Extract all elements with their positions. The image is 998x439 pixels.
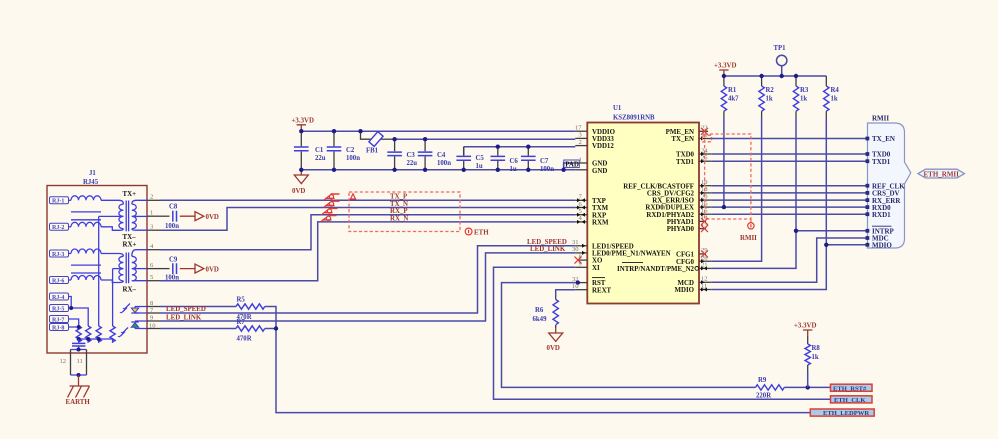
pin U1 GND2 <box>575 168 607 175</box>
svg-text:TXD1: TXD1 <box>872 158 891 166</box>
svg-text:TX_EN: TX_EN <box>671 136 694 143</box>
pin J1.9 lead <box>147 314 160 321</box>
svg-text:17: 17 <box>575 125 582 132</box>
svg-text:RXM: RXM <box>592 220 609 227</box>
svg-text:RXD1: RXD1 <box>872 211 891 219</box>
resistor term3 <box>96 326 101 342</box>
differential pair marker RX_P <box>322 208 338 214</box>
wire pin10 to R7 <box>160 328 236 330</box>
pin U1.4 RXM <box>575 215 609 226</box>
transformer T-RX isolation windings <box>101 250 147 284</box>
capacitor C8 <box>165 204 179 231</box>
svg-text:RX–: RX– <box>123 287 137 294</box>
pin J1.3 lead <box>147 224 160 231</box>
svg-text:R7: R7 <box>237 319 246 326</box>
svg-text:30: 30 <box>572 246 579 253</box>
resistor R4 1k <box>824 76 840 118</box>
connector J1 RJ45 box <box>47 170 147 353</box>
wire TX_P net <box>160 199 575 201</box>
pin J1.1 lead <box>147 210 160 217</box>
wire PAD branch <box>564 163 576 170</box>
svg-text:2: 2 <box>150 194 153 201</box>
svg-text:LED1/SPEED: LED1/SPEED <box>592 243 634 250</box>
svg-text:+3.3VD: +3.3VD <box>794 323 817 330</box>
ferrite bead FB1 <box>361 131 395 154</box>
resistor R9 220R <box>756 377 785 400</box>
svg-text:RX_ERR/ISO: RX_ERR/ISO <box>652 198 694 205</box>
pin U1.31 LED1/SPEED <box>572 239 634 250</box>
ground EARTH <box>66 375 91 406</box>
svg-text:+3.3VD: +3.3VD <box>714 63 737 70</box>
wire LED_SPEED net <box>160 239 575 313</box>
svg-text:ETH_CLK: ETH_CLK <box>834 397 866 404</box>
node PAD label <box>564 160 580 168</box>
harness connector RMII bracket <box>868 115 911 249</box>
LED link (green) <box>117 321 147 338</box>
testpoint TP1 <box>774 45 787 76</box>
pin U1.30 LED0/PME_N1/NWAYEN <box>572 246 671 257</box>
pin U1.15 RXD1/PHYAD2 <box>646 208 711 219</box>
pin J1.2 lead <box>147 194 160 201</box>
svg-text:100n: 100n <box>540 166 554 173</box>
wire ETH_LEDPWR net <box>276 329 810 413</box>
svg-text:100n: 100n <box>165 223 179 230</box>
svg-text:PHYAD0: PHYAD0 <box>667 226 695 233</box>
svg-text:22u: 22u <box>315 155 326 162</box>
wire TX_N net <box>160 208 575 231</box>
harness entry MDIO <box>866 242 893 250</box>
svg-text:C1: C1 <box>315 147 324 154</box>
transformer T-TX isolation windings <box>99 200 147 231</box>
port ETH_RMII hexagon <box>918 169 965 178</box>
wire LED_LINK net <box>160 246 575 321</box>
svg-text:GND: GND <box>592 168 607 175</box>
harness entry TXD1 <box>866 158 891 166</box>
svg-text:TP1: TP1 <box>774 45 787 52</box>
resistor R1 4k7 <box>721 76 739 118</box>
pin J1.6 lead <box>147 262 160 269</box>
svg-text:1u: 1u <box>510 166 517 173</box>
blanket directive dashed box TX/RX <box>349 192 460 232</box>
svg-text:LED_SPEED: LED_SPEED <box>166 306 206 313</box>
svg-text:RJ-8: RJ-8 <box>52 325 64 331</box>
pin U1.8 XO no-connect <box>575 253 603 264</box>
pin J1.4 lead <box>147 243 160 250</box>
svg-text:RJ-4: RJ-4 <box>52 295 64 301</box>
LED speed (yellow) <box>119 304 147 314</box>
svg-text:REF_CLK/BCASTOFF: REF_CLK/BCASTOFF <box>623 183 694 190</box>
pin U1.22 PME_EN no-connect <box>666 125 708 136</box>
pin U1.13 PHYAD0 no-connect <box>667 222 709 233</box>
svg-text:6k49: 6k49 <box>533 316 548 323</box>
svg-text:0VD: 0VD <box>292 188 305 195</box>
svg-text:TX+: TX+ <box>123 191 137 198</box>
pin U1.17 VDDIO <box>575 125 616 136</box>
pin U1.11 MDIO <box>674 283 711 294</box>
directive ETH circle <box>465 228 489 236</box>
svg-text:R3: R3 <box>800 87 809 94</box>
svg-text:TX_N: TX_N <box>390 201 408 208</box>
wire R7 to LEDPWR column <box>265 328 276 330</box>
wire MDIO net <box>711 245 865 290</box>
svg-text:220R: 220R <box>756 393 771 400</box>
pin RJ-8 <box>50 324 69 332</box>
junction dots bob-smith <box>69 306 101 341</box>
svg-text:ETH_RMII: ETH_RMII <box>923 170 959 178</box>
svg-text:0VD: 0VD <box>206 214 219 221</box>
differential pair marker TX_N <box>324 201 340 207</box>
pin U1.6 TXM <box>575 201 608 212</box>
svg-text:1k: 1k <box>831 96 838 103</box>
svg-text:EARTH: EARTH <box>66 399 91 406</box>
svg-text:C6: C6 <box>510 158 519 165</box>
wire TX center tap to C8 <box>160 215 170 217</box>
svg-text:J1: J1 <box>89 170 96 177</box>
junction dot RST/R8 <box>806 385 810 389</box>
svg-text:RJ-2: RJ-2 <box>52 225 64 231</box>
capacitor C5 <box>456 147 484 170</box>
svg-text:FB1: FB1 <box>366 148 379 155</box>
resistor R2 1k <box>759 76 775 118</box>
svg-text:U1: U1 <box>613 105 622 112</box>
wire RX center tap to C9 <box>160 268 170 270</box>
power port +3.3VD (right top) <box>714 63 737 77</box>
pin U1.21 INTRP/NANDT/PME_N2 <box>617 262 711 273</box>
junction dot LEDPWR <box>274 326 278 330</box>
pin U1.12 MCD <box>678 276 712 287</box>
wire TXD1 net <box>711 160 865 162</box>
svg-text:ETH: ETH <box>474 230 489 237</box>
svg-text:RJ-1: RJ-1 <box>52 199 64 205</box>
wire INTRP net <box>711 231 865 269</box>
wire R4 pull-up column to MDIO <box>825 118 827 245</box>
wire pull-up rail <box>724 75 826 77</box>
svg-text:CFG0: CFG0 <box>676 259 695 266</box>
ground 0VD (below R6) <box>547 328 563 352</box>
wire bob-smith rail <box>79 338 113 340</box>
pin U1.14 PHYAD1 no-connect <box>667 215 709 226</box>
resistor R6 6k49 <box>533 290 576 329</box>
svg-text:TX–: TX– <box>123 234 137 241</box>
power port +3.3VD (top) <box>292 118 315 132</box>
svg-text:RMII: RMII <box>872 115 889 123</box>
pin U1.32 RST <box>572 276 606 287</box>
svg-text:12: 12 <box>60 358 67 365</box>
svg-text:C9: C9 <box>169 257 178 264</box>
svg-text:RX+: RX+ <box>123 242 137 249</box>
svg-text:RXD1/PHYAD2: RXD1/PHYAD2 <box>646 212 694 219</box>
svg-text:XO: XO <box>592 258 603 265</box>
pin J1.5 lead <box>147 274 160 281</box>
svg-text:1k: 1k <box>800 96 807 103</box>
wire CRS_DV net <box>711 192 865 194</box>
capacitor chassis cap <box>72 339 85 350</box>
svg-text:R9: R9 <box>758 377 767 384</box>
svg-text:+3.3VD: +3.3VD <box>292 118 315 125</box>
pin RJ-7 <box>50 316 69 324</box>
svg-text:TX_EN: TX_EN <box>872 135 895 143</box>
svg-text:1u: 1u <box>476 163 483 170</box>
resistor term1 (bob-smith) <box>76 326 81 342</box>
differential pair marker TX_P <box>324 194 340 200</box>
pin U1.18 CRS_DV/CFG2 <box>647 186 711 197</box>
svg-text:C8: C8 <box>169 204 178 211</box>
svg-text:11: 11 <box>77 358 83 365</box>
svg-text:PHYAD1: PHYAD1 <box>667 219 695 226</box>
svg-text:10: 10 <box>149 322 156 329</box>
pin U1.24 TXD0 <box>676 147 711 158</box>
pin U1.23 TX_EN <box>671 132 711 143</box>
capacitor C4 <box>418 139 451 170</box>
wire TX_EN net <box>711 138 865 140</box>
harness entry RXD0 <box>866 204 892 212</box>
wire RX_ERR net <box>711 199 865 201</box>
pin RJ-5 <box>50 305 69 313</box>
svg-text:XI: XI <box>592 265 600 272</box>
svg-text:C7: C7 <box>540 158 549 165</box>
pin U1.19 REF_CLK/BCASTOFF <box>623 179 711 190</box>
port ETH_RST# <box>831 384 873 392</box>
pin RJ-6 <box>50 277 69 285</box>
harness entry TXD0 <box>866 151 891 159</box>
resistor term2 <box>86 326 91 342</box>
power port 0VD at C9 <box>180 264 219 273</box>
wire RXD0 net <box>711 206 865 208</box>
wire MDC net <box>711 238 865 282</box>
svg-text:LED_LINK: LED_LINK <box>166 314 202 321</box>
svg-text:LED0/PME_N1/NWAYEN: LED0/PME_N1/NWAYEN <box>592 251 671 258</box>
svg-text:REXT: REXT <box>592 287 612 294</box>
svg-text:TXD0: TXD0 <box>676 152 695 159</box>
svg-text:RXP: RXP <box>592 212 607 219</box>
svg-text:R1: R1 <box>728 87 737 94</box>
svg-text:TXM: TXM <box>592 205 609 212</box>
junction dots top rails <box>299 129 566 172</box>
pin U1.10 REXT <box>572 283 612 294</box>
wire ground rail <box>301 169 575 171</box>
pin RJ-2 <box>50 223 69 231</box>
directive RMII circle <box>740 223 757 242</box>
capacitor C9 <box>165 257 179 282</box>
capacitor C3 <box>387 139 417 170</box>
resistor R5 470R <box>236 297 265 322</box>
resistor R8 1k <box>805 336 820 387</box>
svg-text:MDIO: MDIO <box>872 242 892 250</box>
wire RX_N net <box>160 222 575 281</box>
harness entry INTRP <box>866 226 895 235</box>
wire R9 to port <box>784 386 830 388</box>
pin J1.10 lead <box>147 322 160 329</box>
wire RX center tap to R-term <box>112 269 114 326</box>
junction dots pull-up rail <box>722 74 799 78</box>
capacitor C7 <box>521 147 554 173</box>
pin U1.16 RXD0/DUPLEX <box>645 200 711 211</box>
svg-text:470R: 470R <box>237 336 252 343</box>
svg-text:2: 2 <box>579 139 582 146</box>
transformer T-TX common mode choke <box>69 196 102 227</box>
transformer T-RX common mode choke <box>69 249 102 280</box>
pin U1.20 RX_ERR/ISO <box>652 193 711 204</box>
svg-text:LED_LINK: LED_LINK <box>530 246 566 253</box>
svg-text:ETH_RST#: ETH_RST# <box>833 385 867 392</box>
wire +3.3V rail A <box>301 130 575 132</box>
shield pins 12 11 box <box>60 348 87 378</box>
harness entry MDC <box>866 235 889 243</box>
svg-text:R2: R2 <box>766 87 775 94</box>
svg-text:R8: R8 <box>812 345 821 352</box>
capacitor C1 <box>294 131 326 170</box>
pin U1.7 TXP <box>575 194 606 205</box>
svg-text:TXP: TXP <box>592 198 607 205</box>
svg-text:C4: C4 <box>437 152 446 159</box>
svg-text:PME_EN: PME_EN <box>666 129 694 136</box>
svg-text:1k: 1k <box>766 96 773 103</box>
harness entry RX_ERR <box>866 197 902 205</box>
svg-text:ETH_LEDPWR: ETH_LEDPWR <box>823 410 869 417</box>
svg-text:C5: C5 <box>476 155 485 162</box>
svg-text:4k7: 4k7 <box>728 96 739 103</box>
ground 0VD (below C1) <box>292 170 308 195</box>
wire R1 pull-up column to RXD0 <box>723 118 725 207</box>
svg-text:RXD0/DUPLEX: RXD0/DUPLEX <box>645 205 694 212</box>
svg-text:GND: GND <box>592 161 607 168</box>
wire R3 pull-up column to INTRP <box>795 118 797 231</box>
power port 0VD at C8 <box>180 212 219 221</box>
wire VDD12 rail C <box>464 147 576 156</box>
pin U1.5 RXP <box>575 208 607 219</box>
wire RX_P net <box>160 215 575 250</box>
wire RJ-4 to RJ-5 join <box>69 297 89 327</box>
wire R2 pull-up column to CFG0 <box>711 118 761 261</box>
resistor R7 470R <box>236 319 265 343</box>
svg-text:0VD: 0VD <box>206 266 219 273</box>
svg-text:C3: C3 <box>407 152 416 159</box>
wire ETH_RST net <box>502 283 756 388</box>
svg-text:VDD33: VDD33 <box>592 136 614 143</box>
pin J1.7 lead <box>147 307 160 314</box>
svg-text:0VD: 0VD <box>547 345 560 352</box>
junction dots right nets <box>722 205 829 247</box>
capacitor C6 <box>491 147 519 173</box>
port ETH_LEDPWR <box>810 409 874 417</box>
svg-text:RJ-7: RJ-7 <box>52 317 64 323</box>
pin RJ-3 <box>50 250 69 258</box>
svg-text:LED_SPEED: LED_SPEED <box>527 239 567 246</box>
svg-text:31: 31 <box>572 239 579 246</box>
harness entry REF_CLK <box>866 182 906 190</box>
wire RJ-7 to RJ-8 join <box>69 319 79 327</box>
svg-text:RMII: RMII <box>740 235 757 242</box>
pin U1.2 VDD12 <box>575 139 614 150</box>
pin U1.28 CFG0 <box>676 255 711 266</box>
svg-text:R5: R5 <box>237 297 246 304</box>
wire LED pwr pin8 to R5 <box>160 306 236 308</box>
svg-text:INTRP/NANDT/PME_N2: INTRP/NANDT/PME_N2 <box>617 266 694 273</box>
svg-text:MCD: MCD <box>678 280 694 287</box>
svg-text:1: 1 <box>150 210 153 217</box>
harness entry TX_EN <box>866 135 895 143</box>
svg-text:100n: 100n <box>437 160 451 167</box>
wire RXD1 net <box>711 213 865 215</box>
svg-text:CFG1: CFG1 <box>676 252 695 259</box>
pin J1.8 lead <box>147 300 160 307</box>
svg-text:C2: C2 <box>346 147 355 154</box>
wire TX center tap to R-term <box>98 216 100 326</box>
pin RJ-1 <box>50 197 69 205</box>
differential pair marker RX_N <box>321 216 337 222</box>
wire VDD33 rail B <box>395 138 576 140</box>
resistor R3 1k <box>793 76 809 118</box>
svg-text:CRS_DV/CFG2: CRS_DV/CFG2 <box>647 191 695 198</box>
svg-text:R4: R4 <box>831 87 840 94</box>
svg-text:RJ45: RJ45 <box>83 179 99 186</box>
svg-text:1: 1 <box>579 156 582 163</box>
pin U1.29 CFG1 no-connect <box>676 247 708 258</box>
pin U1.1 GND <box>575 156 607 167</box>
capacitor C2 <box>327 131 360 170</box>
resistor term4 <box>110 326 115 342</box>
wire REF_CLK net <box>711 185 865 187</box>
svg-text:VDDIO: VDDIO <box>592 129 616 136</box>
svg-text:RX_P: RX_P <box>390 208 408 215</box>
wire TXD0 net <box>711 153 865 155</box>
pin U1.3 VDD33 <box>575 132 614 143</box>
svg-text:R6: R6 <box>535 307 544 314</box>
blanket directive dashed box RMII <box>705 134 751 223</box>
svg-text:1k: 1k <box>812 354 819 361</box>
wire ETH_CLK net <box>494 267 831 399</box>
harness entry RXD1 <box>866 211 892 219</box>
svg-text:RJ-6: RJ-6 <box>52 278 64 284</box>
svg-text:RJ-3: RJ-3 <box>52 252 64 258</box>
wire R5 to LEDPWR column <box>265 307 276 329</box>
pin U1.25 TXD1 <box>676 155 711 166</box>
svg-text:TX_P: TX_P <box>390 194 408 201</box>
svg-text:RST: RST <box>592 280 606 287</box>
pin U1.9 XI <box>575 261 600 272</box>
power port +3.3VD (at R8) <box>794 323 817 337</box>
svg-text:KSZ8091RNB: KSZ8091RNB <box>613 115 655 122</box>
pin RJ-4 <box>50 293 69 301</box>
svg-text:RJ-5: RJ-5 <box>52 306 64 312</box>
svg-text:100n: 100n <box>346 155 360 162</box>
svg-text:22u: 22u <box>407 160 418 167</box>
svg-text:RX_N: RX_N <box>390 215 408 222</box>
op-amp U1 KSZ8091RNB body <box>587 105 699 304</box>
svg-text:TXD1: TXD1 <box>676 159 695 166</box>
port ETH_CLK <box>831 396 873 404</box>
svg-text:VDD12: VDD12 <box>592 143 614 150</box>
harness entry CRS_DV <box>866 190 900 198</box>
svg-text:MDIO: MDIO <box>674 287 694 294</box>
